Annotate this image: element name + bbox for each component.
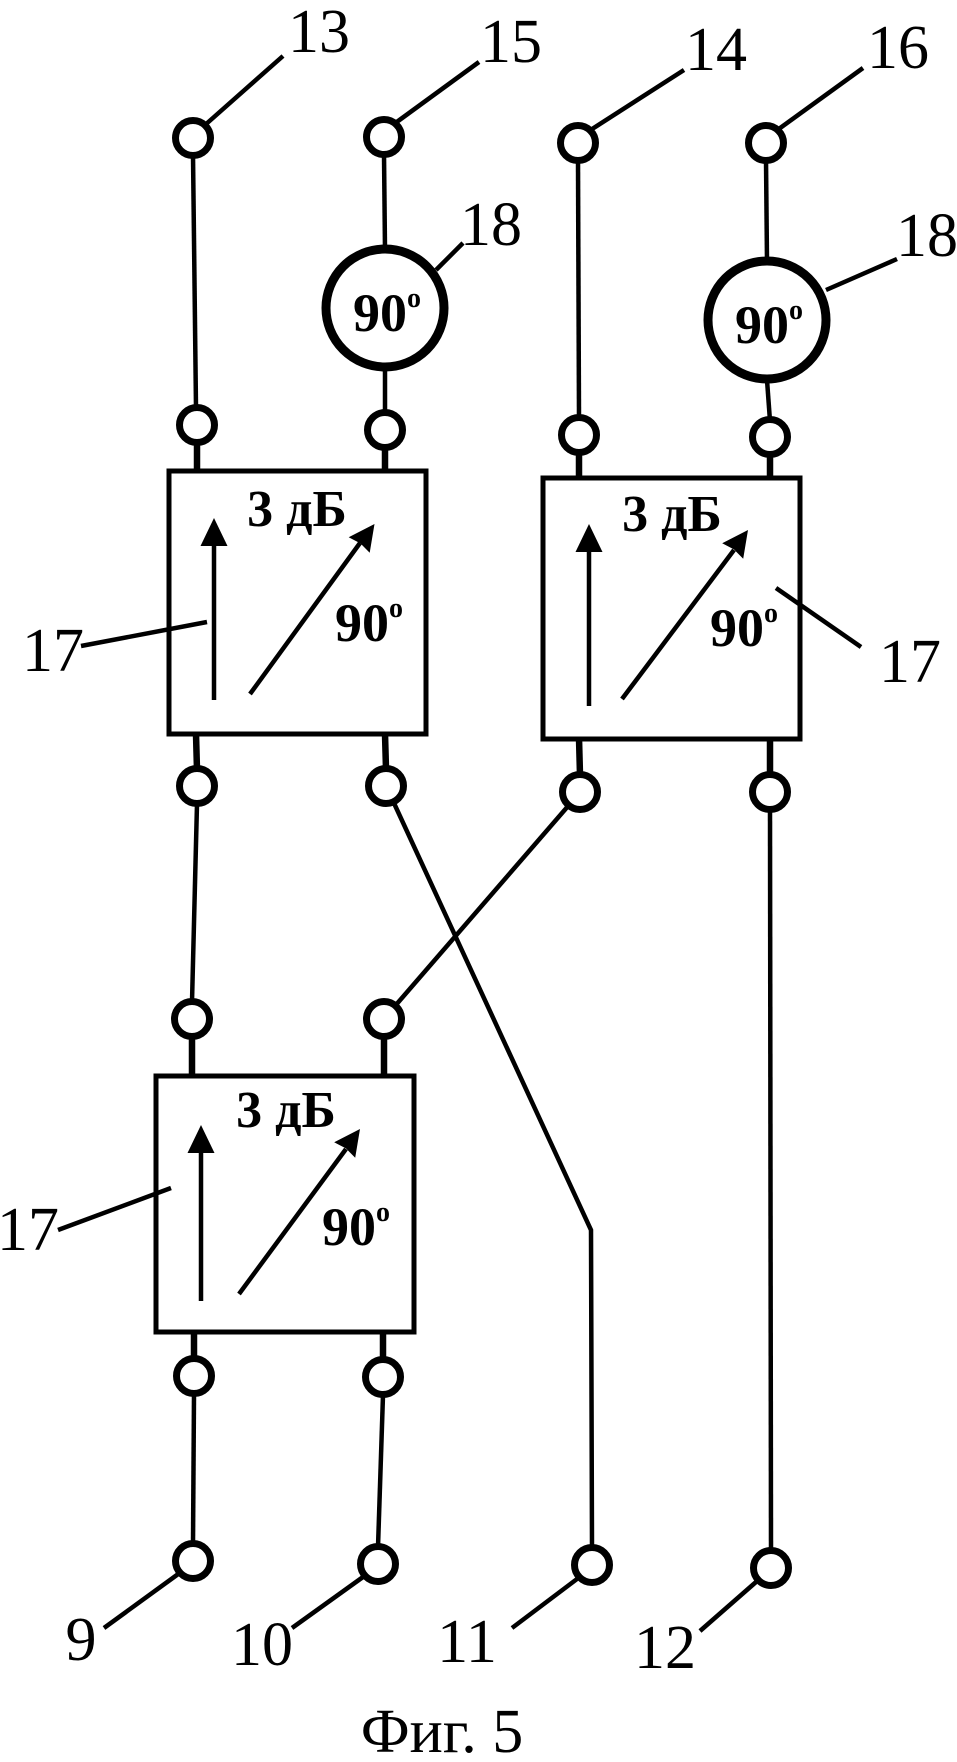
node B2 [369, 769, 404, 804]
leader line for label 15 [394, 62, 479, 124]
wire col4 stub into coupler 17 top-right [767, 455, 774, 478]
coupler U3 box (bottom 3 dB) [156, 1076, 414, 1332]
svg-text:16: 16 [867, 14, 929, 82]
leader line for right label 18 [826, 259, 897, 290]
port 11 circle [575, 1548, 610, 1583]
wire col3 stub below coupler 17 top-right [579, 738, 580, 775]
svg-text:9: 9 [66, 1606, 97, 1674]
svg-text:11: 11 [437, 1608, 497, 1676]
wire col2 stub below coupler 17 top-left [385, 734, 386, 769]
leader line for label 14 [589, 70, 684, 131]
wire crossing diagonal from col2 down to col3 bottom [393, 801, 592, 1548]
wire col1 bottom segment [193, 1394, 194, 1544]
port 13 circle [176, 121, 211, 156]
port 14 circle [561, 126, 596, 161]
node A3 [562, 418, 597, 453]
leader line for left label 18 [436, 243, 463, 270]
svg-text:17: 17 [0, 1196, 59, 1264]
coupler U1 vertical arrow [212, 542, 217, 700]
svg-text:10: 10 [231, 1611, 293, 1679]
leader line for bottom label 17 [58, 1188, 171, 1230]
node A2 [368, 413, 403, 448]
phase shifter 18 circle left [326, 249, 444, 367]
wire crossing diagonal from col3 down to col2 [395, 805, 569, 1006]
coupler U2 box (top-right 3 dB) [543, 478, 800, 739]
leader line for label 11 [512, 1579, 577, 1628]
svg-text:18: 18 [896, 202, 957, 270]
svg-text:17: 17 [879, 628, 941, 696]
node B3 [563, 775, 598, 810]
wire col2 stub below coupler 17 bottom [380, 1332, 387, 1361]
node B1 [180, 769, 215, 804]
svg-text:3 дБ: 3 дБ [622, 486, 722, 543]
leader line for label 13 [205, 56, 283, 125]
wire col1 top segment [193, 155, 196, 408]
wire col1 stub into coupler 17 bottom [189, 1037, 196, 1076]
port 10 circle [361, 1547, 396, 1582]
svg-text:Фиг. 5: Фиг. 5 [361, 1698, 524, 1762]
wire col1 middle segment [192, 804, 197, 1002]
coupler U1 box (top-left 3 dB) [169, 471, 426, 734]
wire col4 stub below coupler 17 top-right [767, 738, 774, 775]
phase shifter 18 circle right [708, 261, 826, 379]
port 16 circle [749, 126, 784, 161]
wire col4 long bottom segment [770, 809, 771, 1552]
wire col2 from phase shifter 18 to port [383, 368, 388, 414]
svg-text:12: 12 [634, 1614, 696, 1682]
svg-text:3 дБ: 3 дБ [236, 1082, 336, 1139]
wire col4 from port 16 to phase shifter 18 [766, 160, 767, 262]
node A4 [753, 420, 788, 455]
wire col2 stub into coupler 17 top-left [382, 448, 389, 471]
node D1 [177, 1359, 212, 1394]
wire col2 from port 15 to phase shifter 18 [384, 154, 385, 250]
node C2 [367, 1002, 402, 1037]
node C1 [175, 1002, 210, 1037]
port 15 circle [367, 120, 402, 155]
wire col1 stub below coupler 17 top-left [196, 734, 197, 770]
port 9 circle [176, 1544, 211, 1579]
node D2 [366, 1360, 401, 1395]
leader line for label 9 [104, 1572, 181, 1628]
wire col2 stub into coupler 17 bottom [381, 1037, 388, 1076]
svg-text:15: 15 [480, 8, 542, 76]
node A1 [180, 408, 215, 443]
leader line for label 10 [292, 1577, 363, 1628]
node B4 [753, 775, 788, 810]
svg-text:18: 18 [460, 191, 522, 259]
leader line for right label 17 [776, 588, 861, 647]
wire col2 bottom segment [378, 1395, 383, 1547]
wire col1 stub into coupler 17 top-left [194, 443, 201, 471]
svg-text:17: 17 [22, 617, 84, 685]
leader line for left label 17 [81, 622, 207, 646]
port 12 circle [754, 1551, 789, 1586]
leader line for label 16 [776, 68, 863, 131]
svg-text:14: 14 [685, 16, 747, 84]
svg-text:13: 13 [288, 0, 350, 66]
coupler U3 diagonal arrow [239, 1149, 346, 1294]
wire col3 top segment [578, 160, 579, 419]
wire col4 from phase shifter 18 to port [767, 380, 770, 421]
coupler U2 vertical arrow [587, 548, 592, 706]
wire col3 stub into coupler 17 top-right [576, 453, 583, 478]
svg-text:3 дБ: 3 дБ [247, 481, 347, 538]
leader line for label 12 [700, 1582, 756, 1631]
coupler U2 diagonal arrow [622, 550, 734, 699]
coupler U1 diagonal arrow [250, 543, 360, 694]
coupler U3 vertical arrow [199, 1149, 204, 1301]
wire col1 stub below coupler 17 bottom [191, 1332, 198, 1360]
